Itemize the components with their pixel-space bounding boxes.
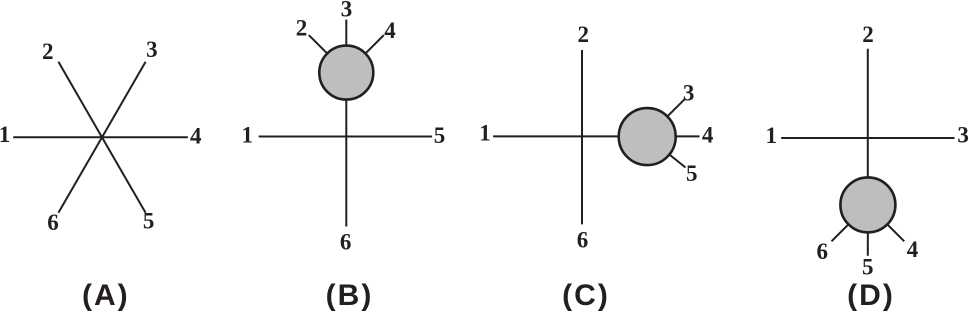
svg-text:4: 4: [907, 237, 919, 262]
spoke 3 (C): [647, 98, 685, 136]
svg-text:(D): (D): [847, 279, 895, 312]
svg-text:1: 1: [241, 122, 253, 147]
node ball (C): [619, 108, 676, 165]
svg-text:1: 1: [479, 121, 491, 146]
svg-text:5: 5: [434, 123, 446, 148]
figure B: cross with ball at top: [241, 0, 445, 312]
spoke 2 (B): [309, 35, 347, 73]
svg-text:(B): (B): [326, 279, 374, 312]
svg-text:(C): (C): [562, 279, 610, 312]
svg-text:2: 2: [42, 39, 54, 64]
spoke 4 (B): [346, 35, 384, 73]
node ball (D): [840, 177, 895, 232]
wire 1-4 (horizontal line C): [493, 135, 699, 137]
spoke 5 (C): [647, 137, 685, 168]
svg-text:4: 4: [702, 123, 714, 148]
svg-text:4: 4: [384, 18, 396, 43]
svg-text:6: 6: [47, 210, 59, 235]
svg-text:6: 6: [340, 229, 352, 254]
wire 1-3 (horizontal line D): [781, 137, 954, 139]
svg-text:3: 3: [341, 0, 353, 21]
svg-text:6: 6: [577, 228, 589, 253]
svg-text:5: 5: [686, 161, 698, 186]
figure A: six-spoke junction: [0, 37, 202, 312]
svg-text:5: 5: [862, 254, 874, 279]
wire 2 (vertical line D): [867, 49, 869, 205]
svg-text:3: 3: [957, 123, 969, 148]
svg-text:4: 4: [190, 124, 202, 149]
spoke 4 (D): [868, 205, 904, 241]
svg-text:2: 2: [578, 22, 590, 47]
spoke 5 (D): [867, 205, 869, 256]
wire 2-6 (vertical line C): [581, 50, 583, 224]
wire 6 (vertical line B): [345, 73, 347, 227]
svg-text:5: 5: [143, 209, 155, 234]
spoke 3 (B): [345, 20, 347, 73]
svg-text:6: 6: [816, 239, 828, 264]
wire 2-5 (diagonal line A): [58, 62, 145, 213]
svg-text:3: 3: [683, 80, 695, 105]
wire 3-6 (diagonal line A): [58, 62, 145, 213]
svg-text:2: 2: [862, 22, 874, 47]
svg-text:1: 1: [0, 122, 10, 147]
figure D: cross with ball at bottom: [766, 22, 969, 312]
wire 1-4 (horizontal line A): [13, 136, 188, 138]
svg-text:(A): (A): [82, 279, 130, 312]
figure C: cross with ball at right: [479, 22, 714, 312]
wire 1-5 (horizontal line B): [259, 136, 432, 138]
svg-text:1: 1: [766, 123, 778, 148]
svg-text:2: 2: [296, 15, 308, 40]
spoke 6 (D): [832, 205, 868, 241]
svg-text:3: 3: [146, 37, 158, 62]
node ball (B): [319, 46, 373, 100]
